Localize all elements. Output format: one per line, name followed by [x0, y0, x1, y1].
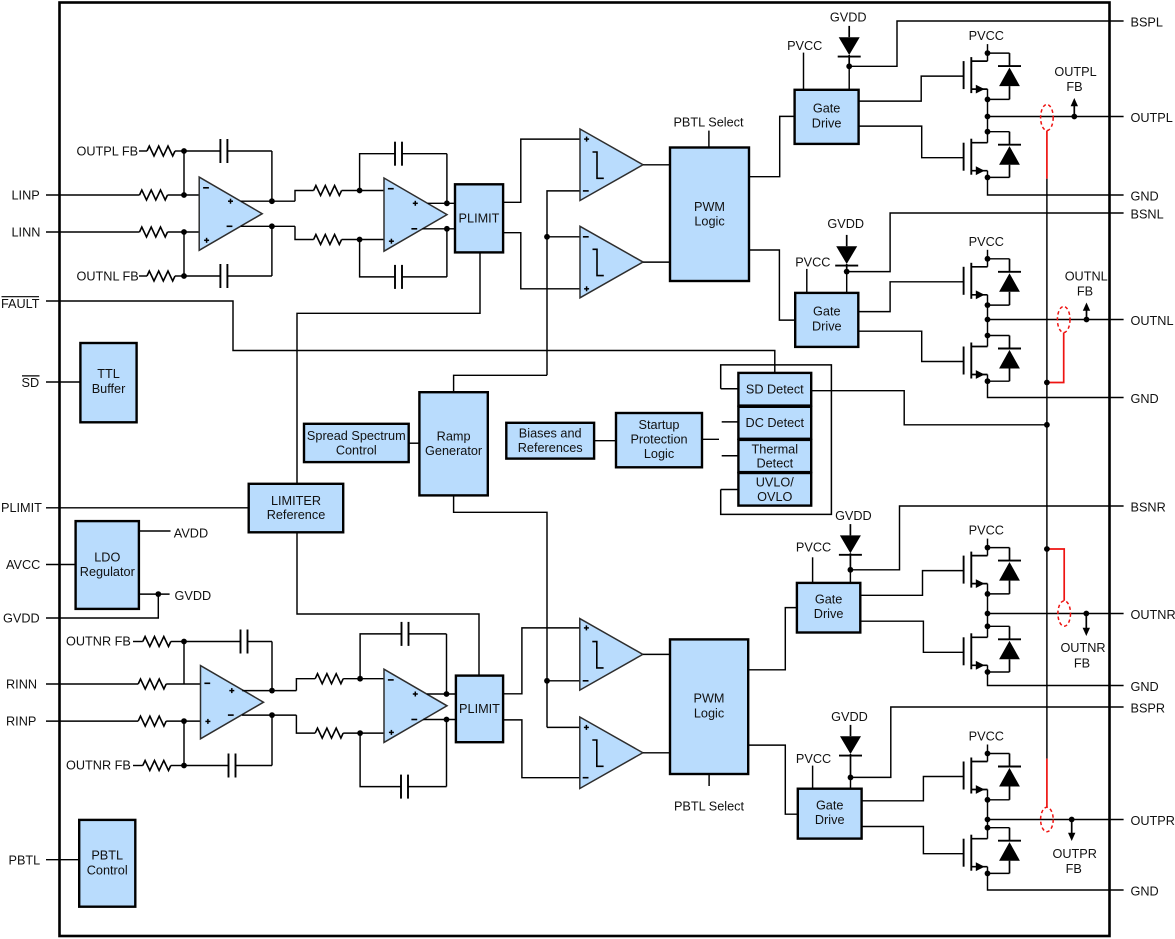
pin RINN lead	[46, 683, 138, 685]
junction sense OUTNR	[1044, 546, 1050, 552]
wire sense red segment OUTNL	[1047, 333, 1064, 383]
junction OUTPL FB tap	[1071, 114, 1077, 120]
transistor Q3 high-side OUTNL	[963, 267, 965, 295]
svg-text:GND: GND	[1131, 884, 1159, 898]
arrow OUTNR FB	[1085, 614, 1087, 629]
svg-text:FB: FB	[1066, 80, 1082, 94]
junction Q4 drain tap	[985, 333, 991, 339]
wire OUTNL FB lead	[139, 275, 147, 277]
wire Q6 source to ground rail	[988, 665, 1124, 685]
wire C1 to U1 output P	[271, 151, 273, 201]
svg-text:OUTNR FB: OUTNR FB	[66, 759, 131, 773]
resistor R7 second stage P	[315, 674, 343, 684]
svg-text:Gate: Gate	[815, 592, 843, 606]
comparator CMP1 L high-side	[580, 129, 643, 201]
wire U2 out P to PLIMIT1	[428, 202, 455, 204]
svg-text:OUTPL: OUTPL	[1054, 65, 1096, 79]
svg-text:Thermal: Thermal	[752, 442, 799, 456]
svg-text:OUTNL FB: OUTNL FB	[77, 270, 139, 284]
svg-text:GND: GND	[1131, 680, 1159, 694]
junction Q8 source	[985, 871, 991, 877]
svg-text:GVDD: GVDD	[827, 217, 864, 231]
wire Q8 drain rail	[987, 820, 989, 839]
wire OUTNR FB lead lower	[133, 765, 143, 767]
wire PLIMIT1 to LIMITER Reference	[297, 252, 480, 483]
block Thermal Detect	[738, 440, 811, 472]
wire GVDD pin to LDO output	[46, 594, 158, 618]
svg-text:Control: Control	[87, 863, 128, 877]
svg-text:GVDD: GVDD	[3, 612, 40, 626]
junction U3 out N	[269, 712, 275, 718]
junction Q7 source	[985, 797, 991, 803]
svg-text:FB: FB	[1077, 285, 1093, 299]
wire R4 to U2	[342, 239, 384, 241]
wire ramp branch to CMP2	[547, 236, 580, 238]
wire OUTPL output to pin	[988, 116, 1124, 118]
resistor RINP input	[138, 716, 166, 726]
wire PVCC stub OUTNR	[987, 539, 989, 548]
wire detect bracket	[721, 365, 832, 515]
wire U4 out N to PLIMIT2	[423, 719, 456, 721]
comparator CMP3 R high-side	[580, 619, 643, 691]
wire CMP4 out to PWM Logic R	[643, 752, 670, 754]
current probe ellipse OUTPL	[1041, 105, 1054, 131]
junction OUTNL FB node	[181, 273, 187, 279]
junction U1 out P	[269, 198, 275, 204]
wire ramp branch to CMP3	[547, 680, 580, 682]
wire U4 out P to PLIMIT2	[427, 693, 456, 695]
wire output sense line vertical	[1046, 179, 1048, 759]
svg-text:FB: FB	[1066, 862, 1082, 876]
wire sense red segment OUTPR	[1046, 759, 1048, 808]
svg-text:Drive: Drive	[815, 813, 845, 827]
current probe ellipse OUTNL	[1057, 307, 1070, 333]
svg-text:GND: GND	[1131, 392, 1159, 406]
svg-text:Control: Control	[336, 444, 377, 458]
wire C4 to U2 out N	[446, 229, 448, 277]
svg-text:Drive: Drive	[812, 319, 842, 333]
wire Q7 drain rail	[987, 754, 989, 762]
wire ramp to CMP4	[547, 726, 580, 728]
wire PVCC stub GD2	[806, 269, 808, 293]
transistor Q5 high-side OUTNR	[963, 556, 965, 584]
node OUTPL output	[985, 114, 991, 120]
pin RINP lead	[46, 720, 138, 722]
wire C5 to U3 output P	[271, 642, 273, 691]
op-amp U2 second integrator L	[384, 178, 447, 251]
wire C7 to U4 out P	[446, 634, 448, 694]
wire Q4 source to ground rail	[988, 375, 1124, 398]
wire Q4 drain rail	[987, 320, 989, 347]
svg-text:OUTNL: OUTNL	[1131, 314, 1174, 328]
svg-text:PVCC: PVCC	[969, 524, 1004, 538]
svg-text:OUTPR: OUTPR	[1052, 847, 1096, 861]
svg-text:Gate: Gate	[816, 798, 844, 812]
junction Q3 source	[985, 302, 991, 308]
wire SSC to Ramp Generator	[409, 442, 420, 444]
wire C3 to U2 out P	[446, 154, 448, 204]
wire U1 P to R3	[295, 191, 314, 202]
wire RINP to op-amp	[166, 720, 200, 722]
junction OUTPR FB tap	[1069, 817, 1075, 823]
junction U4 out N	[444, 717, 450, 723]
wire C8 to U4 out N	[446, 720, 448, 787]
wire Q6 drain rail	[987, 614, 989, 638]
svg-text:LDO: LDO	[94, 550, 120, 564]
junction sense DC detect	[1044, 422, 1050, 428]
svg-text:PVCC: PVCC	[969, 235, 1004, 249]
svg-text:References: References	[518, 441, 583, 455]
wire BSPR net	[851, 707, 1124, 777]
block Gate Drive 1	[795, 90, 859, 144]
svg-text:PVCC: PVCC	[795, 256, 830, 270]
junction Q8 drain tap	[985, 825, 991, 831]
wire Q5 drain rail	[987, 548, 989, 556]
wire R3 to U2	[342, 190, 384, 192]
block Gate Drive 4	[798, 789, 862, 839]
block Ramp Generator	[419, 392, 487, 495]
block PWM Logic R	[670, 639, 748, 774]
block LIMITER Reference	[249, 484, 344, 533]
arrow OUTNL FB	[1086, 310, 1088, 320]
resistor OUTPL FB	[147, 146, 175, 156]
svg-text:RINP: RINP	[6, 715, 36, 729]
transistor Q7 high-side OUTPR	[963, 762, 965, 790]
svg-text:Spread Spectrum: Spread Spectrum	[307, 429, 406, 443]
transistor Q1 high-side OUTPL	[963, 61, 965, 89]
wire Q3 drain rail	[987, 259, 989, 267]
junction OUTNL FB tap	[1084, 317, 1090, 323]
svg-text:OUTNL: OUTNL	[1065, 270, 1108, 284]
block PBTL Control	[79, 820, 135, 907]
block LDO Regulator	[76, 521, 139, 609]
wire ramp to CMP1 inverting	[547, 191, 580, 375]
wire U3 N to R8	[296, 715, 315, 733]
node OUTPR output	[985, 817, 991, 823]
block PLIMIT1	[455, 184, 503, 252]
capacitor C7 feedback U4 top	[360, 634, 401, 679]
svg-text:Gate: Gate	[813, 102, 841, 116]
svg-text:GVDD: GVDD	[835, 509, 872, 523]
svg-text:LINN: LINN	[12, 226, 41, 240]
current probe ellipse OUTNR	[1058, 601, 1071, 626]
wire U3 output P	[242, 690, 296, 692]
block UVLO/OVLO	[738, 473, 811, 506]
junction U1 out N	[269, 223, 275, 229]
capacitor feedback C1 top (OUTPL FB)	[184, 150, 220, 152]
wire OUTNR FB upper to node	[171, 641, 184, 643]
junction Q1 source	[985, 97, 991, 103]
junction U3 out P	[269, 688, 275, 694]
wire PLIMIT1 out N to comparator CMP2	[503, 233, 580, 289]
transistor Q8 low-side OUTPR	[963, 839, 965, 867]
wire sense red segment OUTNR	[1047, 549, 1064, 601]
wire D2 to Gate Drive 2	[846, 272, 848, 293]
svg-text:BSNR: BSNR	[1131, 500, 1166, 514]
junction Q2 drain tap	[985, 129, 991, 135]
svg-text:FB: FB	[1074, 656, 1090, 670]
junction GVDD node	[155, 591, 161, 597]
svg-text:Detect: Detect	[756, 456, 793, 470]
wire PVCC stub GD1	[803, 53, 805, 90]
wire R8 to U4	[343, 732, 384, 734]
svg-text:PBTL Select: PBTL Select	[673, 116, 744, 130]
wire U1 N to R4	[295, 226, 314, 239]
wire CMP1 out to PWM Logic L	[643, 164, 670, 166]
svg-text:OUTPL: OUTPL	[1131, 111, 1173, 125]
svg-text:Logic: Logic	[694, 706, 725, 720]
svg-text:LINP: LINP	[12, 189, 40, 203]
wire PVCC stub GD3	[812, 557, 814, 583]
junction U2 out N	[444, 226, 450, 232]
capacitor feedback C2 bottom (OUTNL FB)	[184, 275, 220, 277]
wire PLIMIT2 out N to comparator CMP4	[503, 720, 580, 778]
transistor Q2 low-side OUTPL	[963, 143, 965, 171]
wire input bus upper (OUTNR FB to RINN)	[183, 642, 185, 685]
svg-text:OUTNR: OUTNR	[1131, 608, 1175, 622]
resistor OUTNL FB	[147, 271, 175, 281]
block DC Detect	[738, 407, 811, 439]
svg-text:SD Detect: SD Detect	[746, 383, 804, 397]
wire R7 to U4	[343, 678, 384, 680]
svg-text:TTL: TTL	[97, 367, 120, 381]
wire Q2 source to ground rail	[988, 171, 1124, 195]
svg-text:PVCC: PVCC	[796, 541, 831, 555]
diode body Q5	[988, 547, 1010, 549]
wire C2 to U1 output N	[271, 226, 273, 276]
resistor OUTNR FB upper	[143, 637, 171, 647]
svg-text:PVCC: PVCC	[969, 29, 1004, 43]
wire Q1 source rail	[987, 89, 989, 116]
svg-text:AVCC: AVCC	[6, 558, 40, 572]
svg-text:PVCC: PVCC	[969, 730, 1004, 744]
svg-text:Gate: Gate	[813, 305, 841, 319]
node OUTNL output	[985, 317, 991, 323]
wire OUTPR output to pin	[988, 819, 1124, 821]
wire DC Detect stub	[722, 421, 739, 423]
diode body Q8	[988, 827, 1010, 829]
pin LINP lead	[46, 194, 140, 196]
junction LINN node	[181, 229, 187, 235]
svg-text:FAULT: FAULT	[1, 297, 40, 311]
wire BSNR net	[850, 506, 1123, 570]
wire Q1 drain rail	[987, 53, 989, 61]
junction Q3 drain	[985, 256, 991, 262]
node OUTNR output	[985, 611, 991, 617]
wire PBTL to PBTL Control	[46, 859, 79, 861]
wire OUTNL FB to node	[175, 275, 184, 277]
svg-text:Logic: Logic	[644, 447, 675, 461]
svg-text:Ramp: Ramp	[437, 430, 471, 444]
wire GD1 to high-side gate Q1	[859, 76, 964, 101]
svg-text:Regulator: Regulator	[80, 565, 136, 579]
junction LINP node	[181, 192, 187, 198]
transistor Q6 low-side OUTNR	[963, 637, 965, 665]
capacitor C8 feedback U4 bottom	[360, 733, 401, 787]
block Gate Drive 3	[797, 583, 860, 633]
op-amp U3 first integrator R	[201, 666, 264, 739]
wire PWM L out low to Gate Drive 2	[749, 250, 795, 320]
wire GD1 to low-side gate Q2	[859, 126, 964, 158]
svg-text:LIMITER: LIMITER	[271, 494, 321, 508]
diode body Q4	[988, 335, 1010, 337]
svg-text:OUTPL FB: OUTPL FB	[77, 145, 139, 159]
wire PLIMIT1 out P to comparator CMP1	[503, 139, 580, 202]
wire GD4 to low-side gate Q8	[862, 827, 964, 854]
wire U2 out N to PLIMIT1	[422, 228, 455, 230]
block Biases and References	[506, 423, 594, 459]
wire Q8 source to ground rail	[988, 867, 1124, 890]
resistor OUTNR FB lower	[143, 761, 171, 771]
wire FAULT to SD Detect	[46, 301, 775, 373]
wire AVDD output stub	[139, 530, 171, 532]
resistor R3 second stage P	[314, 186, 342, 196]
wire PBTL Select stub top	[708, 131, 710, 148]
svg-text:GND: GND	[1131, 189, 1159, 203]
svg-text:GVDD: GVDD	[831, 710, 868, 724]
wire GD3 to low-side gate Q6	[860, 621, 963, 652]
svg-text:RINN: RINN	[6, 678, 37, 692]
wire PLIMIT2 out P to comparator CMP3	[503, 628, 580, 694]
wire PBTL Select stub bottom	[708, 774, 710, 786]
wire GD4 to high-side gate Q7	[862, 777, 964, 801]
junction U4 inverting node	[357, 676, 363, 682]
block TTL Buffer	[80, 343, 136, 422]
wire PVCC stub OUTPL	[987, 44, 989, 53]
resistor LINN input	[140, 227, 168, 237]
wire PVCC stub OUTPR	[987, 745, 989, 754]
svg-text:UVLO/: UVLO/	[756, 476, 795, 490]
wire D1 to Gate Drive 1	[848, 66, 850, 90]
wire GD2 to low-side gate Q4	[858, 331, 963, 361]
diode body Q3	[988, 258, 1010, 260]
junction Q5 drain	[985, 545, 991, 551]
wire U1 output N	[241, 225, 295, 227]
wire U1 output P	[241, 200, 295, 202]
svg-text:PWM: PWM	[693, 692, 724, 706]
capacitor feedback C6 bottom (OUTNR FB)	[184, 765, 229, 767]
capacitor feedback C5 top (OUTNR FB)	[184, 641, 241, 643]
wire AVCC to LDO	[46, 564, 76, 566]
svg-text:PLIMIT: PLIMIT	[1, 501, 42, 515]
svg-text:PLIMIT: PLIMIT	[459, 702, 500, 716]
wire PLIMIT to LIMITER Reference	[46, 507, 249, 509]
wire D3 to Gate Drive 3	[849, 570, 851, 583]
wire LINP to op-amp	[168, 194, 200, 196]
wire Thermal Detect stub	[722, 455, 739, 457]
svg-text:PBTL: PBTL	[91, 849, 123, 863]
wire GD3 to high-side gate Q5	[860, 571, 963, 596]
block Gate Drive 2	[795, 293, 858, 347]
wire PWM R out high to Gate Drive 3	[748, 608, 797, 670]
svg-text:AVDD: AVDD	[174, 526, 208, 540]
wire CMP2 out to PWM Logic L	[643, 261, 670, 263]
wire PWM L out high to Gate Drive 1	[749, 116, 795, 176]
wire CMP3 out to PWM Logic R	[643, 653, 670, 655]
junction Q7 drain	[985, 751, 991, 757]
wire LINN to op-amp	[168, 231, 200, 233]
wire PWM R out low to Gate Drive 4	[748, 745, 798, 814]
svg-text:PBTL: PBTL	[9, 853, 41, 867]
pin LINN lead	[46, 231, 140, 233]
wire Q2 drain rail	[987, 117, 989, 143]
wire SD Detect to output sense line	[811, 391, 1047, 425]
block Spread Spectrum Control	[304, 424, 409, 462]
junction OUTNR FB tap	[1083, 611, 1089, 617]
wire Startup Protection output stub	[702, 438, 719, 440]
junction ramp node L	[544, 234, 550, 240]
wire PVCC stub GD4	[812, 766, 814, 789]
wire OUTNR FB lead upper	[133, 641, 143, 643]
current probe ellipse OUTPR	[1041, 807, 1054, 831]
junction ramp node R	[544, 678, 550, 684]
junction U4 out P	[444, 691, 450, 697]
wire OUTNR FB lower to node	[171, 765, 184, 767]
svg-text:SD: SD	[22, 376, 40, 390]
wire OUTNL output to pin	[988, 319, 1124, 321]
junction Q1 drain	[985, 50, 991, 56]
wire D4 to Gate Drive 4	[850, 777, 852, 788]
diode body Q7	[988, 753, 1010, 755]
svg-text:PVCC: PVCC	[787, 39, 822, 53]
junction U2 out P	[444, 200, 450, 206]
svg-text:Biases and: Biases and	[519, 427, 582, 441]
svg-text:GVDD: GVDD	[175, 589, 212, 603]
svg-text:BSNL: BSNL	[1131, 207, 1164, 221]
svg-text:BSPR: BSPR	[1131, 701, 1166, 715]
svg-text:DC Detect: DC Detect	[746, 416, 805, 430]
transistor Q4 low-side OUTNL	[963, 347, 965, 375]
resistor RINN input	[138, 679, 166, 689]
svg-text:OUTNR FB: OUTNR FB	[66, 635, 131, 649]
comparator CMP2 L low-side	[580, 226, 643, 297]
wire GVDD output stub	[139, 593, 170, 595]
diode body Q6	[988, 625, 1010, 627]
resistor R8 second stage N	[315, 728, 343, 738]
svg-text:Drive: Drive	[814, 607, 844, 621]
svg-text:BSPL: BSPL	[1131, 15, 1163, 29]
arrow OUTPL FB	[1073, 105, 1075, 116]
svg-text:OVLO: OVLO	[757, 490, 792, 504]
wire PVCC stub OUTNL	[987, 250, 989, 259]
wire bracket to SD Detect	[721, 388, 739, 390]
svg-text:Buffer: Buffer	[92, 382, 126, 396]
wire C6 to U3 output N	[271, 715, 273, 765]
wire U3 output N	[242, 714, 296, 716]
wire LIMITER Reference to PLIMIT2	[297, 532, 479, 675]
wire RINN to op-amp	[166, 683, 200, 685]
wire OUTPL FB to node	[175, 150, 184, 152]
block PWM Logic L	[670, 148, 749, 282]
junction sense OUTNL	[1044, 380, 1050, 386]
comparator CMP4 R low-side	[580, 717, 643, 789]
svg-text:PVCC: PVCC	[796, 752, 831, 766]
junction Q4 source	[985, 378, 991, 384]
svg-text:Protection: Protection	[630, 433, 687, 447]
junction Q2 source	[985, 175, 991, 181]
svg-text:GVDD: GVDD	[830, 11, 867, 25]
junction OUTNR FB upper node	[181, 639, 187, 645]
junction U2 noninverting node	[357, 237, 363, 243]
svg-text:OUTPR: OUTPR	[1131, 814, 1175, 828]
junction Q6 source	[985, 669, 991, 675]
junction OUTPL FB node	[181, 148, 187, 154]
wire U3 P to R7	[296, 679, 315, 691]
wire input bus lower (LINN to OUTNL FB)	[183, 232, 185, 276]
wire GD2 to high-side gate Q3	[858, 282, 963, 312]
junction U4 noninverting node	[357, 730, 363, 736]
block SD Detect	[738, 373, 811, 406]
